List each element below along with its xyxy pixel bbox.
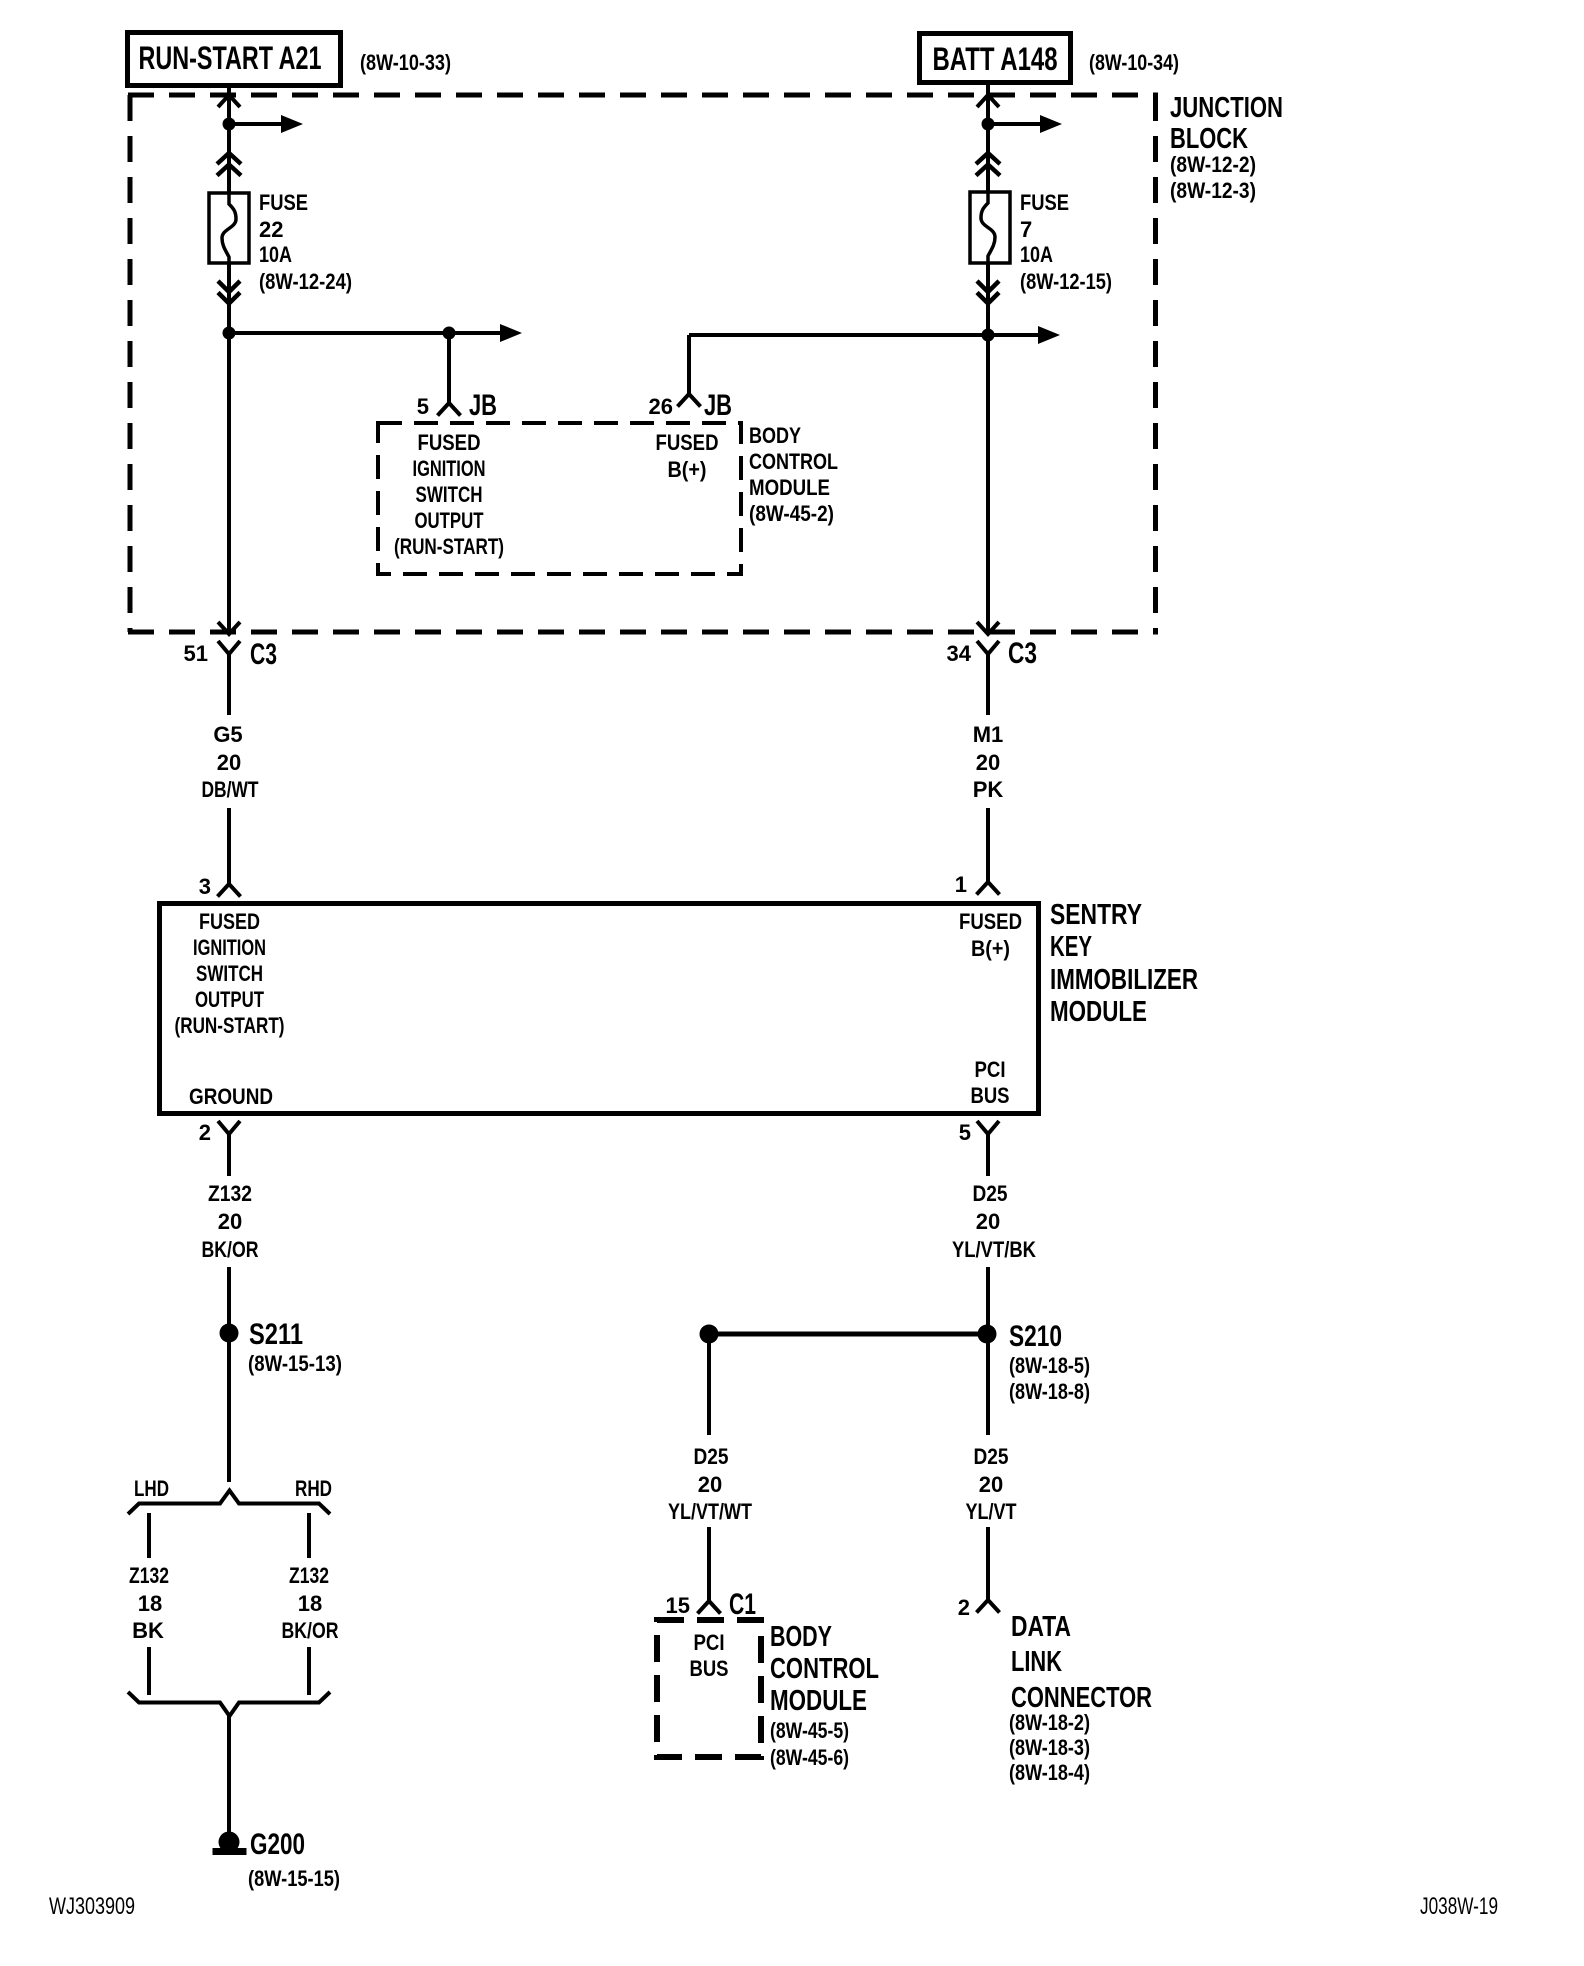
svg-text:PCI: PCI: [975, 1057, 1006, 1082]
node junction dot left top: [223, 118, 236, 131]
wire RHD branch lower: [307, 1647, 311, 1695]
svg-text:FUSED: FUSED: [959, 909, 1022, 934]
wire horizontal to JB 26 and arrow: [689, 326, 1060, 344]
svg-text:18: 18: [138, 1591, 162, 1616]
junction block internal dashed box: [378, 423, 741, 574]
arrow feed direction at top left entry: [218, 95, 240, 107]
junction block dashed boundary: [128, 95, 1158, 632]
svg-text:YL/VT/WT: YL/VT/WT: [668, 1499, 752, 1524]
connector chevrons above fuse 7: [976, 153, 1000, 176]
svg-text:M1: M1: [973, 722, 1004, 747]
splice S211: [220, 1318, 343, 1376]
svg-text:22: 22: [259, 217, 283, 242]
connector chevrons below fuse 22: [218, 281, 240, 304]
wire LHD branch upper: [147, 1513, 151, 1558]
svg-text:KEY: KEY: [1050, 931, 1092, 963]
svg-text:J038W-19: J038W-19: [1420, 1893, 1498, 1920]
ground G200: [213, 1828, 341, 1891]
svg-text:JB: JB: [704, 389, 732, 422]
svg-text:BLOCK: BLOCK: [1170, 123, 1248, 155]
svg-text:JUNCTION: JUNCTION: [1170, 92, 1283, 124]
svg-text:D25: D25: [694, 1444, 729, 1469]
connector C1 pin 15: [666, 1588, 756, 1621]
svg-text:G5: G5: [213, 722, 242, 747]
svg-text:BK/OR: BK/OR: [282, 1618, 339, 1643]
connector chevrons below fuse 7: [977, 281, 999, 304]
svg-text:BODY: BODY: [770, 1621, 832, 1653]
svg-text:Z132: Z132: [208, 1181, 252, 1206]
svg-text:(8W-12-2): (8W-12-2): [1170, 152, 1256, 177]
connector SKIM pin 5: [959, 1120, 999, 1145]
svg-text:20: 20: [698, 1472, 722, 1497]
connector C3 pin 34: [947, 637, 1037, 670]
wire to splice S211: [227, 1267, 231, 1482]
value label fuse 7: [1020, 190, 1112, 294]
wire to BCM pin 15: [707, 1527, 711, 1601]
connector C3 pin 51: [184, 638, 277, 671]
merge brace to ground stem: [128, 1692, 330, 1716]
node RUN-START A21 feed box: [128, 33, 341, 86]
svg-text:FUSED: FUSED: [199, 909, 260, 934]
svg-text:SENTRY: SENTRY: [1050, 899, 1142, 931]
svg-text:(8W-10-33): (8W-10-33): [360, 50, 451, 75]
svg-text:(RUN-START): (RUN-START): [394, 534, 504, 559]
wire RHD branch upper: [307, 1513, 311, 1558]
connector SKIM pin 3: [199, 874, 241, 899]
wire to splice S210: [986, 1267, 990, 1435]
node junction dot left mid: [223, 327, 236, 340]
wire right branch to DLC: [986, 1527, 990, 1600]
svg-text:PCI: PCI: [694, 1630, 725, 1655]
svg-text:B(+): B(+): [668, 457, 707, 482]
svg-text:WJ303909: WJ303909: [49, 1893, 135, 1920]
svg-text:LHD: LHD: [134, 1476, 169, 1501]
svg-text:OUTPUT: OUTPUT: [415, 508, 484, 533]
svg-text:YL/VT: YL/VT: [966, 1499, 1017, 1524]
wire below C3 pin 51: [227, 654, 231, 715]
label DATA LINK CONNECTOR: [1009, 1611, 1152, 1785]
svg-text:(8W-15-13): (8W-15-13): [248, 1351, 342, 1376]
svg-text:(8W-12-15): (8W-12-15): [1020, 269, 1112, 294]
svg-text:IGNITION: IGNITION: [193, 935, 266, 960]
splice S210: [978, 1320, 1091, 1404]
label fused B(+): [656, 430, 719, 482]
wire LHD branch lower: [147, 1647, 151, 1695]
svg-text:(8W-18-2): (8W-18-2): [1009, 1710, 1090, 1735]
svg-text:FUSE: FUSE: [1020, 190, 1069, 215]
wire branch arrow top right: [988, 115, 1062, 133]
svg-text:26: 26: [649, 394, 673, 419]
svg-text:34: 34: [947, 641, 972, 666]
wire label D25 20 YL/VT: [966, 1444, 1017, 1524]
svg-text:(8W-45-6): (8W-45-6): [770, 1745, 849, 1770]
svg-text:MODULE: MODULE: [749, 475, 830, 500]
svg-text:RUN-START A21: RUN-START A21: [139, 40, 322, 76]
connector chevrons above fuse 22: [217, 153, 241, 176]
wire below pin 5: [986, 1134, 990, 1176]
fuse 7 10A: [970, 192, 1010, 263]
arrow exit bottom left of junction block: [218, 622, 240, 634]
wire BATT A148 into junction block: [986, 83, 990, 192]
svg-text:(8W-18-5): (8W-18-5): [1009, 1353, 1090, 1378]
svg-text:(8W-18-8): (8W-18-8): [1009, 1379, 1090, 1404]
wire to SKIM pin 3: [227, 808, 231, 884]
fuse 22 10A: [209, 193, 249, 263]
wire label Z132 18 BK/OR: [282, 1563, 339, 1643]
wire below C3 pin 34: [986, 654, 990, 715]
svg-text:2: 2: [958, 1595, 970, 1620]
connector JB pin 26: [678, 394, 701, 407]
node splice branch dot: [700, 1325, 719, 1344]
connector SKIM pin 2: [199, 1120, 240, 1145]
label fused ignition switch output: [394, 430, 504, 559]
svg-text:C1: C1: [729, 1588, 756, 1621]
svg-text:BK/OR: BK/OR: [202, 1237, 259, 1262]
wire label D25 20 YL/VT/WT: [668, 1444, 752, 1524]
svg-text:FUSED: FUSED: [418, 430, 481, 455]
svg-text:20: 20: [976, 750, 1000, 775]
node junction dot right top: [982, 118, 995, 131]
svg-text:SWITCH: SWITCH: [196, 961, 263, 986]
LHD/RHD split brace: [128, 1476, 332, 1514]
label BODY CONTROL MODULE: [770, 1621, 879, 1770]
svg-text:GROUND: GROUND: [189, 1084, 273, 1109]
node junction dot right mid: [982, 329, 995, 342]
svg-text:(8W-10-34): (8W-10-34): [1089, 50, 1179, 75]
svg-text:5: 5: [417, 394, 429, 419]
svg-text:5: 5: [959, 1120, 971, 1145]
sentry key immobilizer module box: [160, 904, 1039, 1114]
svg-text:(8W-18-4): (8W-18-4): [1009, 1760, 1090, 1785]
svg-text:MODULE: MODULE: [1050, 996, 1147, 1028]
svg-text:3: 3: [199, 874, 211, 899]
svg-text:Z132: Z132: [129, 1563, 169, 1588]
svg-text:LINK: LINK: [1011, 1646, 1062, 1678]
svg-text:20: 20: [976, 1209, 1000, 1234]
svg-text:FUSE: FUSE: [259, 190, 308, 215]
svg-text:(8W-12-3): (8W-12-3): [1170, 178, 1256, 203]
label JUNCTION BLOCK: [1170, 92, 1283, 203]
svg-text:S211: S211: [249, 1318, 303, 1351]
wire branch arrow top left: [229, 115, 303, 133]
svg-text:CONTROL: CONTROL: [749, 449, 838, 474]
svg-text:(8W-15-15): (8W-15-15): [248, 1866, 340, 1891]
node junction dot at JB 5 drop: [443, 327, 456, 340]
svg-text:(8W-45-5): (8W-45-5): [770, 1718, 849, 1743]
svg-text:20: 20: [218, 1209, 242, 1234]
label PCI BUS (module): [971, 1057, 1010, 1108]
body control module dashed box: [657, 1620, 761, 1757]
svg-text:SWITCH: SWITCH: [416, 482, 483, 507]
svg-text:BODY: BODY: [749, 423, 801, 448]
connector DLC pin 2: [958, 1595, 1000, 1620]
svg-text:IGNITION: IGNITION: [413, 456, 486, 481]
svg-text:2: 2: [199, 1120, 211, 1145]
svg-text:RHD: RHD: [295, 1476, 332, 1501]
svg-text:CONTROL: CONTROL: [770, 1653, 879, 1685]
wire branch down to BCM: [707, 1334, 711, 1435]
svg-text:D25: D25: [974, 1444, 1009, 1469]
wire ground stem: [227, 1716, 231, 1834]
label PCI BUS (BCM): [690, 1630, 729, 1681]
svg-text:IMMOBILIZER: IMMOBILIZER: [1050, 964, 1198, 996]
svg-text:FUSED: FUSED: [656, 430, 719, 455]
label fused ignition switch output (module): [175, 909, 285, 1038]
svg-text:S210: S210: [1009, 1320, 1062, 1353]
svg-text:10A: 10A: [259, 242, 292, 267]
svg-text:C3: C3: [250, 638, 277, 671]
svg-text:(8W-18-3): (8W-18-3): [1009, 1735, 1090, 1760]
svg-text:20: 20: [979, 1472, 1003, 1497]
wire label G5 20 DB/WT: [202, 722, 259, 802]
svg-text:C3: C3: [1008, 637, 1037, 670]
svg-text:(8W-45-2): (8W-45-2): [749, 501, 834, 526]
svg-text:BUS: BUS: [690, 1656, 729, 1681]
svg-text:OUTPUT: OUTPUT: [195, 987, 264, 1012]
label SENTRY KEY IMMOBILIZER MODULE: [1050, 899, 1198, 1028]
svg-text:MODULE: MODULE: [770, 1685, 867, 1717]
svg-text:15: 15: [666, 1593, 690, 1618]
label body control module (junction block): [749, 423, 838, 526]
wire drop to JB pin 26: [687, 335, 691, 394]
wire label Z132 18 BK: [129, 1563, 169, 1643]
connector SKIM pin 1: [955, 872, 1000, 897]
arrow exit bottom right of junction block: [977, 622, 999, 634]
wire label D25 20 YL/VT/BK: [952, 1181, 1036, 1262]
svg-text:20: 20: [217, 750, 241, 775]
svg-text:DB/WT: DB/WT: [202, 777, 259, 802]
svg-text:18: 18: [298, 1591, 322, 1616]
svg-text:DATA: DATA: [1011, 1611, 1071, 1643]
svg-text:B(+): B(+): [971, 936, 1010, 961]
wire horizontal to JB 5 and arrow: [229, 324, 522, 342]
svg-text:1: 1: [955, 872, 967, 897]
connector JB pin 5: [438, 403, 461, 416]
wire to SKIM pin 1: [986, 808, 990, 882]
svg-text:G200: G200: [250, 1828, 305, 1861]
svg-text:BK: BK: [132, 1618, 164, 1643]
arrow feed direction at top right entry: [977, 95, 999, 107]
svg-text:(8W-12-24): (8W-12-24): [259, 269, 352, 294]
svg-text:(RUN-START): (RUN-START): [175, 1013, 285, 1038]
svg-text:BUS: BUS: [971, 1083, 1010, 1108]
wire label Z132 20 BK/OR: [202, 1181, 259, 1262]
node BATT A148 feed box: [920, 34, 1071, 83]
svg-text:YL/VT/BK: YL/VT/BK: [952, 1237, 1036, 1262]
svg-text:51: 51: [184, 641, 208, 666]
wire RUN-START A21 into junction block: [227, 86, 231, 193]
wire fuse 7 down to exit: [986, 263, 990, 634]
label fused B(+) (module): [959, 909, 1022, 961]
svg-text:7: 7: [1020, 217, 1032, 242]
wire drop to JB pin 5: [447, 333, 451, 403]
wire splice bus S210 horizontal: [709, 1332, 987, 1337]
svg-text:10A: 10A: [1020, 242, 1053, 267]
wire below pin 2: [227, 1134, 231, 1176]
svg-text:D25: D25: [973, 1181, 1008, 1206]
svg-text:Z132: Z132: [289, 1563, 329, 1588]
value label fuse 22: [259, 190, 352, 294]
svg-text:BATT A148: BATT A148: [933, 41, 1058, 77]
wire label M1 20 PK: [973, 722, 1004, 802]
svg-text:JB: JB: [469, 389, 497, 422]
wire fuse 22 down to exit: [227, 263, 231, 634]
svg-text:PK: PK: [973, 777, 1004, 802]
